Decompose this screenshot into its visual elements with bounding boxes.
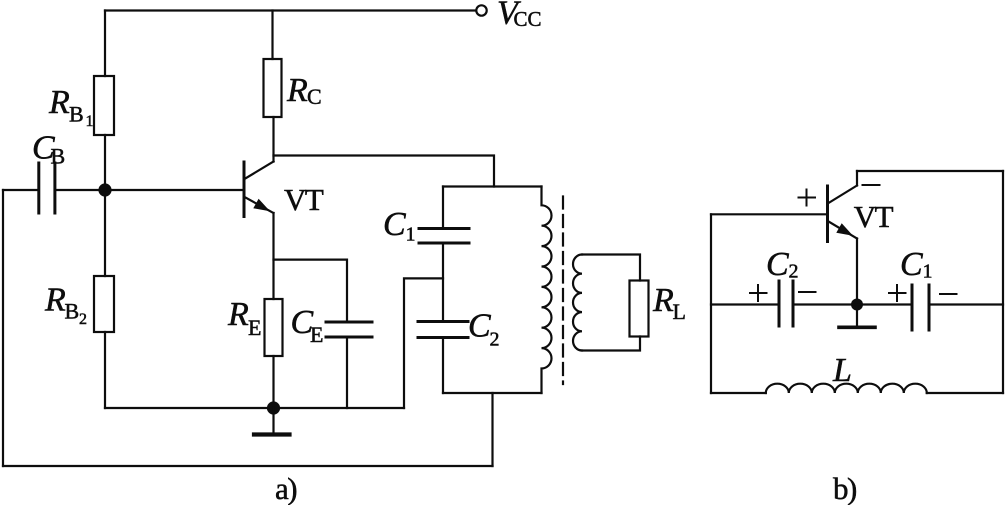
capacitor C2 (418, 322, 468, 338)
svg-text:VT: VT (854, 199, 894, 234)
wire Rb1 bottom to Rb2 (104, 135, 106, 276)
wire top rail a (105, 9, 476, 11)
capacitor C1b (912, 285, 929, 330)
svg-text:1: 1 (86, 113, 94, 130)
capacitor C1 (419, 229, 469, 244)
wire top rail b (857, 170, 1003, 172)
wire RE bottom (272, 356, 274, 408)
inductor L (766, 384, 927, 393)
plus sign C2b (750, 285, 767, 301)
resistor RB1 (94, 76, 114, 135)
minus sign C2b (799, 291, 816, 293)
wire collector to tank (274, 156, 495, 187)
wire RL bottom (582, 337, 640, 351)
capacitor C2b (779, 281, 793, 326)
wire tank bottom rail (443, 392, 542, 394)
ground b bar (839, 325, 875, 329)
svg-text:E: E (248, 315, 261, 340)
svg-text:CC: CC (514, 7, 542, 31)
wire base (105, 189, 244, 191)
svg-text:R: R (227, 296, 249, 333)
wire secondary top (582, 255, 640, 281)
svg-text:2: 2 (79, 311, 87, 328)
wire Rb2 bottom (104, 332, 106, 408)
wire tank top rail (443, 185, 542, 187)
wire RC top (271, 11, 273, 60)
transistor VT emitter line (245, 197, 274, 213)
wire C1C2 junction tap (404, 278, 443, 408)
svg-text:2: 2 (490, 329, 500, 351)
svg-text:1: 1 (923, 261, 933, 283)
resistor RC (264, 59, 282, 117)
svg-text:R: R (44, 282, 66, 319)
transistor VT base bar (243, 162, 246, 217)
svg-text:L: L (832, 352, 852, 389)
node emitter junction b (851, 299, 863, 311)
ground b stub (856, 305, 858, 327)
wire CE bottom (346, 337, 348, 408)
minus sign C1b (940, 293, 957, 295)
wire tank bottom drop (491, 393, 493, 466)
terminal Vcc (476, 5, 486, 15)
wire tank left segments (442, 187, 444, 394)
transformer core dashed line (562, 197, 564, 385)
wire CE branch (274, 260, 348, 322)
svg-text:R: R (286, 72, 308, 109)
wire inner bottom rail (105, 407, 404, 409)
wire emitter down (272, 213, 274, 299)
wire Rb1 top (104, 11, 106, 77)
wire CB right (56, 189, 105, 191)
wire C2b to node (793, 303, 912, 305)
transistor VTb emitter arrow (836, 223, 853, 236)
transistor VTb collector line (829, 171, 858, 203)
ground a stub (272, 408, 274, 433)
wire base b (711, 213, 826, 215)
transistor VTb base bar (826, 186, 829, 242)
svg-text:B: B (51, 144, 66, 169)
svg-text:b): b) (833, 471, 856, 505)
wire right rail b (1002, 171, 1004, 393)
minus sign collector b (863, 184, 880, 186)
transistor VT collector line (245, 162, 274, 180)
plus sign C1b (889, 285, 906, 301)
wire mid left b (711, 303, 779, 305)
wire C1b to right rail (929, 303, 1003, 305)
wire outer bottom (3, 465, 493, 467)
capacitor CE (326, 322, 372, 337)
wire bottom rail b right (927, 392, 1003, 394)
wire CB left (3, 189, 37, 191)
wire left rail b (710, 214, 712, 393)
svg-text:B: B (65, 299, 80, 324)
resistor RE (265, 299, 283, 356)
svg-text:C: C (766, 246, 789, 283)
node emitter ground junction (267, 401, 280, 414)
resistor RL (630, 281, 649, 337)
plus sign base b (799, 190, 816, 206)
svg-text:C: C (468, 308, 491, 345)
resistor RB2 (94, 276, 114, 332)
svg-text:C: C (383, 206, 406, 243)
wire bottom rail b left (711, 392, 766, 394)
transistor VT emitter arrow (253, 199, 270, 212)
node base junction (98, 183, 111, 196)
svg-text:E: E (310, 322, 323, 347)
svg-text:B: B (69, 102, 84, 127)
wire collector up (272, 117, 274, 162)
transistor VTb emitter line (829, 222, 858, 239)
svg-text:L: L (673, 299, 686, 324)
wire left rail (2, 190, 4, 466)
transformer secondary winding (573, 255, 582, 351)
svg-text:a): a) (275, 471, 296, 505)
svg-text:2: 2 (789, 261, 799, 283)
svg-text:VT: VT (284, 182, 324, 217)
svg-text:R: R (652, 282, 674, 319)
capacitor CB (39, 163, 55, 213)
svg-text:C: C (900, 246, 923, 283)
ground a bar (254, 432, 290, 436)
transformer primary winding (542, 187, 552, 394)
svg-text:R: R (48, 84, 70, 121)
svg-text:C: C (307, 84, 322, 109)
wire emitter down b (856, 239, 858, 305)
svg-text:1: 1 (406, 224, 416, 246)
